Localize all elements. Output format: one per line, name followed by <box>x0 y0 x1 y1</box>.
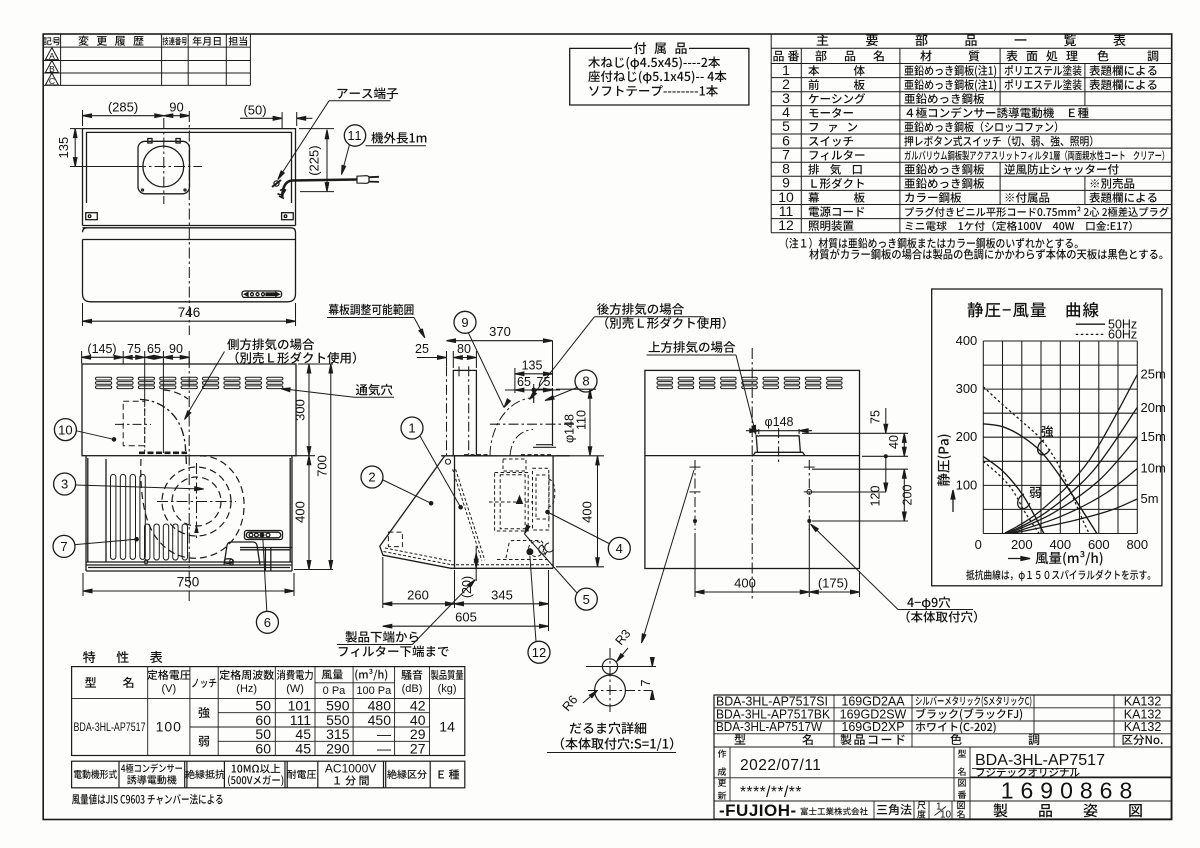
svg-text:0 Pa: 0 Pa <box>323 685 347 697</box>
bottom right step front view <box>240 548 292 572</box>
label 製品下端からフィルター下端まで <box>345 631 418 643</box>
svg-text:135: 135 <box>522 358 543 372</box>
svg-text:10: 10 <box>58 422 72 437</box>
graph labels 強 弱 <box>1042 425 1054 437</box>
y axis title <box>951 490 955 512</box>
svg-text:(50): (50) <box>243 103 266 118</box>
dimension 605 <box>383 570 549 631</box>
balloon 11 <box>344 125 365 146</box>
dimension 135 <box>70 129 136 167</box>
dimension 90 <box>164 114 190 118</box>
svg-text:1: 1 <box>408 421 415 436</box>
svg-text:200: 200 <box>901 485 915 506</box>
motor spec table <box>72 761 465 788</box>
svg-text:746: 746 <box>178 305 201 320</box>
dimension 200 rear <box>902 469 906 521</box>
lamp housing front <box>224 542 260 565</box>
switch unit (top view) <box>242 291 282 297</box>
graph grid <box>983 341 1137 534</box>
svg-text:60Hz: 60Hz <box>1108 328 1137 342</box>
dimension 260 345 <box>383 557 549 608</box>
balloon 7 <box>53 535 75 557</box>
dimension 120 rear <box>884 456 888 492</box>
svg-text:75: 75 <box>537 375 551 389</box>
svg-text:5: 5 <box>583 592 590 607</box>
svg-text:4: 4 <box>616 541 623 556</box>
title block lower <box>714 747 1171 819</box>
fan scroll casing (dashed) <box>141 390 244 558</box>
duct centerlines <box>135 118 202 204</box>
body centerline <box>188 111 190 335</box>
svg-text:60: 60 <box>255 741 271 757</box>
dimension 7 keyhole <box>650 658 654 700</box>
svg-text:—: — <box>377 741 391 757</box>
dimension 25 and 80 <box>417 351 476 368</box>
svg-text:BDA-3HL-AP7517SI: BDA-3HL-AP7517SI <box>716 694 828 708</box>
graph legend <box>1076 324 1105 334</box>
label 4-phi9 holes <box>907 596 950 609</box>
dimension 400 side <box>556 456 604 567</box>
rear duct stub <box>753 436 805 456</box>
keyhole detail daruma hole <box>595 659 626 706</box>
svg-text:290: 290 <box>326 741 350 757</box>
L duct rear exhaust (dash-dot) <box>490 398 533 456</box>
power cord <box>282 180 357 198</box>
dimension 700 <box>329 364 333 570</box>
svg-text:400: 400 <box>734 576 756 591</box>
svg-text:135: 135 <box>56 137 71 159</box>
revision triangles A B C <box>45 48 58 60</box>
svg-text:600: 600 <box>1088 537 1110 552</box>
mounting holes <box>690 467 815 494</box>
svg-text:(kg): (kg) <box>438 683 457 695</box>
svg-text:100: 100 <box>156 719 182 735</box>
filter slats short group <box>145 524 188 560</box>
svg-text:(145): (145) <box>87 342 116 356</box>
side duct option (dashed rect) <box>123 401 145 446</box>
svg-text:6: 6 <box>264 615 271 630</box>
svg-text:KA132: KA132 <box>1124 707 1162 721</box>
svg-text:25m: 25m <box>1141 367 1166 382</box>
svg-text:200: 200 <box>1011 537 1033 552</box>
balloon 8 <box>575 370 597 392</box>
svg-text:300: 300 <box>956 381 978 396</box>
dimension 750 <box>83 573 294 596</box>
vent slots front <box>96 377 283 388</box>
accessories box 付属品 <box>570 48 749 105</box>
svg-text:9: 9 <box>461 315 468 330</box>
svg-text:1690868: 1690868 <box>1001 778 1140 804</box>
dimension 135 side <box>515 368 553 393</box>
svg-text:169GD2AA: 169GD2AA <box>841 694 905 708</box>
revision history table <box>43 34 250 85</box>
svg-text:3: 3 <box>61 477 68 492</box>
filter slats tall group <box>111 474 146 559</box>
svg-text:12: 12 <box>778 217 794 233</box>
svg-text:(V): (V) <box>161 683 176 695</box>
svg-text:(285): (285) <box>108 100 138 115</box>
svg-text:7: 7 <box>60 539 67 554</box>
svg-text:BDA-3HL-AP7517: BDA-3HL-AP7517 <box>74 722 146 734</box>
dimension (285) <box>83 110 164 126</box>
svg-text:(W): (W) <box>286 683 304 695</box>
svg-text:75: 75 <box>127 342 141 356</box>
svg-text:(225): (225) <box>307 145 322 175</box>
svg-text:C: C <box>49 76 55 86</box>
leader to keyhole detail <box>642 470 695 643</box>
dimension 400 front <box>294 456 333 570</box>
svg-text:BDA-3HL-AP7517W: BDA-3HL-AP7517W <box>716 720 822 734</box>
characteristics table 特性表 <box>83 651 162 663</box>
label 後方排気の場合 <box>597 303 684 315</box>
parts table notes <box>786 238 1163 260</box>
dimension (175) <box>809 571 859 597</box>
dimension 300 <box>294 364 333 456</box>
svg-text:15m: 15m <box>1141 429 1166 444</box>
dimension (50) <box>240 112 312 128</box>
svg-text:40: 40 <box>887 435 901 449</box>
svg-text:65: 65 <box>517 375 531 389</box>
balloon 10 <box>54 419 76 441</box>
label 幕板調整可能範囲 <box>329 304 414 315</box>
svg-text:0: 0 <box>975 537 982 552</box>
svg-text:8: 8 <box>582 374 589 389</box>
graph panel static pressure curve <box>932 289 1162 586</box>
label earth terminal アース端子 <box>337 87 397 99</box>
svg-text:(20): (20) <box>460 576 474 598</box>
svg-text:14: 14 <box>439 719 455 735</box>
svg-text:345: 345 <box>491 587 513 602</box>
svg-text:605: 605 <box>455 610 477 625</box>
svg-text:2: 2 <box>368 470 375 485</box>
x axis title <box>1008 557 1030 561</box>
svg-text:BDA-3HL-AP7517: BDA-3HL-AP7517 <box>975 752 1105 769</box>
duct cover strip (makuita) <box>453 370 476 455</box>
balloon 3 <box>54 473 76 495</box>
svg-text:169GD2SW: 169GD2SW <box>840 707 907 721</box>
side body profile <box>380 456 570 569</box>
svg-text:169GD2XP: 169GD2XP <box>841 720 904 734</box>
dimension 65 75 <box>505 384 560 396</box>
svg-text:KA132: KA132 <box>1124 720 1162 734</box>
duct resistance curves <box>1005 375 1138 534</box>
side exhaust duct arc <box>140 399 186 464</box>
main parts list table 主要部品一覧表 <box>771 34 1171 233</box>
svg-text:KA132: KA132 <box>1124 694 1162 708</box>
rear view centerline <box>751 348 753 601</box>
balloon 1 <box>401 417 423 439</box>
title block <box>714 695 1171 819</box>
svg-text:65: 65 <box>147 342 161 356</box>
svg-text:7: 7 <box>639 679 653 686</box>
svg-text:100 Pa: 100 Pa <box>356 685 392 697</box>
svg-text:110: 110 <box>575 410 589 430</box>
vent slots rear <box>657 377 842 388</box>
rear right ext lines <box>802 433 908 521</box>
interior machinery (dashed) <box>489 459 555 560</box>
power plug <box>357 176 379 184</box>
front view centerline <box>188 357 190 601</box>
switch (front view) <box>245 531 283 540</box>
balloon 6 <box>256 611 278 633</box>
svg-text:25: 25 <box>415 342 429 356</box>
svg-text:(dB): (dB) <box>402 683 423 695</box>
fan circles (dashed) <box>162 467 231 536</box>
svg-text:80: 80 <box>457 342 471 356</box>
svg-text:370: 370 <box>489 324 511 339</box>
fan curve weak 50Hz <box>983 457 1044 534</box>
svg-text:27: 27 <box>410 741 426 757</box>
svg-text:20m: 20m <box>1141 400 1166 415</box>
duct collar (top view) <box>138 139 190 194</box>
svg-text:400: 400 <box>956 333 978 348</box>
label 上方排気の場合 <box>649 341 736 353</box>
small screws on bottom rail <box>144 559 233 564</box>
dimension 370 <box>447 339 553 386</box>
top view of hood body <box>83 129 296 302</box>
svg-text:100: 100 <box>956 477 978 492</box>
svg-text:120: 120 <box>869 486 883 507</box>
svg-text:φ148: φ148 <box>765 415 794 429</box>
top dashed flange on body <box>464 454 553 456</box>
fan center lines <box>157 463 236 540</box>
svg-text:****/**/**: ****/**/** <box>740 784 802 801</box>
svg-text:11: 11 <box>348 129 363 143</box>
dimension (20) <box>474 546 478 581</box>
wall mount bracket left <box>86 213 98 220</box>
earth terminal <box>272 180 286 199</box>
balloon 5 <box>575 588 597 610</box>
svg-text:AC1000V: AC1000V <box>325 762 376 776</box>
svg-text:750: 750 <box>177 575 200 590</box>
svg-text:B: B <box>49 64 55 74</box>
dimension phi148 rear <box>746 429 812 434</box>
JIS note <box>72 794 223 805</box>
balloon 2 <box>361 466 383 488</box>
svg-text:45: 45 <box>295 741 311 757</box>
dimension 75 rear <box>884 408 888 433</box>
dimension 400 rear <box>695 525 809 597</box>
label 側方排気の場合 <box>227 338 314 350</box>
svg-text:(175): (175) <box>818 576 848 591</box>
svg-text:400: 400 <box>1049 537 1071 552</box>
svg-text:BDA-3HL-AP7517BK: BDA-3HL-AP7517BK <box>716 707 831 721</box>
dimension (225) <box>299 129 334 192</box>
keyhole captions <box>570 722 646 734</box>
svg-text:260: 260 <box>407 587 429 602</box>
fan curve strong 60Hz <box>983 387 1089 534</box>
dimension 746 <box>83 303 296 326</box>
svg-text:800: 800 <box>1126 537 1148 552</box>
front view of hood <box>82 364 296 571</box>
balloon 12 <box>528 641 550 663</box>
svg-text:10m: 10m <box>1141 461 1166 476</box>
duct exit outline <box>533 388 556 447</box>
rear view of hood <box>645 370 860 568</box>
graph note <box>966 570 1150 582</box>
nose dashed box <box>388 532 402 547</box>
svg-text:(Hz): (Hz) <box>236 683 257 695</box>
front panel inner slope (dashed) <box>384 469 554 565</box>
svg-text:400: 400 <box>580 501 595 523</box>
dimension (145) 75 65 90 <box>82 351 190 364</box>
svg-text:700: 700 <box>314 455 329 477</box>
svg-text:300: 300 <box>293 399 308 421</box>
balloon 9 <box>454 311 476 333</box>
mounting hole centerlines <box>695 460 809 530</box>
svg-text:200: 200 <box>956 429 978 444</box>
dimension 40 rear <box>902 433 906 456</box>
label 通気穴 <box>356 384 393 396</box>
svg-text:400: 400 <box>293 501 308 523</box>
svg-text:90: 90 <box>169 342 183 356</box>
svg-text:90: 90 <box>169 100 183 115</box>
wall mount bracket right <box>282 213 294 220</box>
svg-text:75: 75 <box>869 410 883 424</box>
balloon 4 <box>608 537 630 559</box>
svg-text:5m: 5m <box>1141 491 1159 506</box>
svg-text:-FUJIOH-: -FUJIOH- <box>719 801 797 820</box>
dimension 110 <box>556 389 596 456</box>
svg-text:2022/07/11: 2022/07/11 <box>740 757 821 774</box>
svg-text:12: 12 <box>532 645 546 660</box>
side exhaust cut lines <box>139 364 187 453</box>
label 機外長1m <box>371 132 426 144</box>
svg-text:A: A <box>49 51 55 61</box>
side duct cross mark <box>115 423 151 425</box>
svg-text:10: 10 <box>940 810 952 821</box>
fan curve weak 60Hz <box>983 461 1039 533</box>
fan curve strong 50Hz <box>983 424 1097 534</box>
